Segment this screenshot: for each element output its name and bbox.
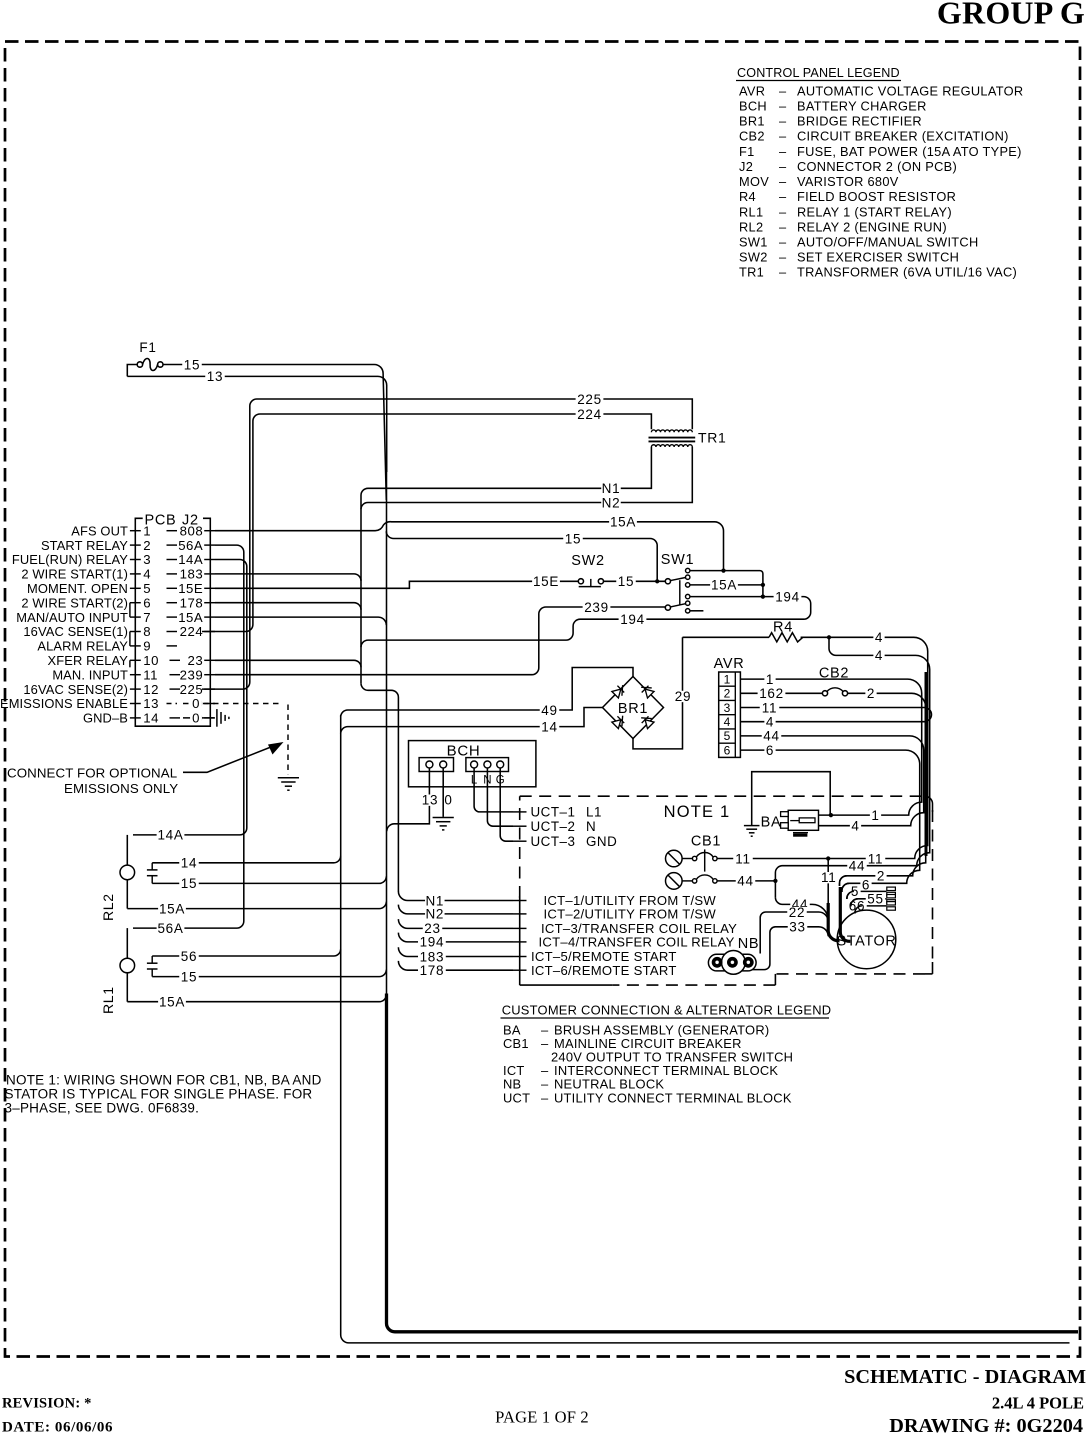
svg-text:15A: 15A: [178, 610, 203, 625]
svg-text:–: –: [779, 250, 787, 265]
svg-text:UCT: UCT: [503, 1090, 530, 1105]
svg-text:15A: 15A: [159, 995, 185, 1010]
svg-text:9: 9: [143, 639, 151, 654]
svg-text:194: 194: [775, 589, 800, 604]
svg-text:14: 14: [541, 719, 557, 734]
wire 15A (RL2 coil to 13/15 vertical): [127, 902, 386, 909]
svg-text:MOMENT. OPEN: MOMENT. OPEN: [27, 581, 128, 596]
svg-text:1: 1: [724, 672, 731, 686]
wire 23 (pin10 to fan bundle): [215, 660, 361, 667]
wire 56A (pin2 to RL1): [133, 545, 244, 928]
svg-text:START RELAY: START RELAY: [41, 538, 128, 553]
svg-text:TRANSFORMER (6VA UTIL/16 VAC): TRANSFORMER (6VA UTIL/16 VAC): [797, 265, 1017, 280]
svg-text:TR1: TR1: [698, 430, 727, 446]
svg-text:UCT–2: UCT–2: [531, 819, 576, 834]
wire 6 (AVR-6 through bundle to stator lead 2): [740, 750, 919, 892]
connector J2 tie bars pins 6-7 and 8-9: [129, 603, 131, 617]
ground GND-B (sideways): [216, 709, 218, 727]
rectifier BR1: [603, 677, 664, 739]
svg-text:UTILITY CONNECT TERMINAL BLOCK: UTILITY CONNECT TERMINAL BLOCK: [554, 1090, 792, 1105]
wire 13 from F1: [127, 376, 386, 472]
transformer TR1: [651, 430, 692, 432]
svg-text:15: 15: [181, 969, 197, 984]
svg-text:29: 29: [675, 689, 691, 704]
wire 4 (R4 out lower, becomes 44 row): [775, 637, 929, 897]
svg-text:UCT–1: UCT–1: [531, 805, 576, 820]
svg-text:ICT–2/UTILITY FROM T/SW: ICT–2/UTILITY FROM T/SW: [544, 907, 717, 922]
ground BA: [744, 825, 760, 827]
spade terminals 5/55/66: [887, 887, 896, 890]
wire 2 and 6 labels: [875, 871, 886, 882]
svg-text:12: 12: [143, 682, 159, 697]
wire 0 (BCH to ground): [442, 768, 444, 817]
svg-text:XFER RELAY: XFER RELAY: [48, 653, 129, 668]
svg-text:CIRCUIT BREAKER (EXCITATION): CIRCUIT BREAKER (EXCITATION): [797, 129, 1009, 144]
svg-text:CB1: CB1: [503, 1036, 529, 1051]
wire 15A (SW1 c3): [690, 584, 763, 586]
wire 1 (AVR-1 through bundle to BA): [740, 679, 921, 815]
svg-text:DATE: 06/06/06: DATE: 06/06/06: [2, 1420, 113, 1436]
svg-text:1: 1: [871, 808, 879, 823]
wire 239 (pin11 to SW1): [215, 607, 665, 675]
wire 66 with terminal: [855, 906, 887, 914]
diode BR1 top-right: [639, 682, 655, 698]
wire F1 left lead to 13: [127, 365, 137, 377]
svg-text:225: 225: [180, 682, 204, 697]
svg-text:44: 44: [763, 729, 779, 744]
svg-text:CB2: CB2: [819, 665, 849, 681]
connector J2 pin rows, numbers and wire numbers: [130, 530, 141, 532]
wire 224 (pin8 to TR1): [202, 414, 651, 632]
svg-text:4: 4: [766, 715, 774, 730]
svg-text:FUEL(RUN) RELAY: FUEL(RUN) RELAY: [12, 552, 128, 567]
svg-text:11: 11: [735, 851, 750, 866]
svg-text:–: –: [779, 189, 787, 204]
svg-text:RL1: RL1: [100, 986, 116, 1014]
ground (emissions option): [278, 777, 299, 779]
svg-text:7: 7: [143, 610, 151, 625]
wire 56 (RL1 contact to left vertical): [152, 949, 341, 956]
svg-text:183: 183: [180, 567, 204, 582]
node junction dot SW1 pole feed: [655, 579, 659, 583]
wire 14 (BR1 left to left vertical): [341, 708, 603, 734]
wire 33 (stator lead to NB): [748, 927, 828, 970]
svg-text:NOTE 1: WIRING SHOWN FOR CB1,: NOTE 1: WIRING SHOWN FOR CB1, NB, BA AND: [6, 1073, 322, 1088]
svg-text:49: 49: [541, 703, 557, 718]
wire 162 / 2 with breaker CB2 (AVR-2): [740, 692, 822, 694]
svg-text:AVR: AVR: [714, 656, 745, 672]
svg-text:EMISSIONS ONLY: EMISSIONS ONLY: [64, 781, 178, 796]
svg-text:1: 1: [143, 523, 151, 538]
svg-text:4: 4: [875, 648, 883, 663]
wire 15E (pin5 to SW2): [215, 581, 578, 588]
UCT terminal rows: [513, 811, 527, 813]
svg-text:6: 6: [862, 878, 870, 893]
wire 808 (pin1, jogs up to 15A row): [215, 522, 724, 571]
svg-text:4: 4: [724, 715, 731, 729]
svg-text:CONTROL PANEL LEGEND: CONTROL PANEL LEGEND: [737, 66, 900, 80]
svg-text:ICT–6/REMOTE START: ICT–6/REMOTE START: [531, 963, 677, 978]
wire 15 (SW2 to SW1 pole): [604, 580, 666, 582]
wire 44 to stator lead 1: [775, 897, 828, 920]
svg-text:5: 5: [724, 729, 731, 743]
svg-text:–: –: [779, 174, 787, 189]
svg-text:–: –: [779, 144, 787, 159]
svg-text:11: 11: [143, 667, 158, 682]
wire 4 (R4 out upper, becomes 11 row at CB1): [717, 637, 927, 858]
relay RL2 contact: [147, 869, 158, 871]
wire 49 (BR1 top to left vertical): [341, 668, 633, 718]
svg-text:AVR: AVR: [739, 83, 765, 98]
svg-text:178: 178: [420, 963, 445, 978]
svg-text:ICT–4/TRANSFER COIL RELAY: ICT–4/TRANSFER COIL RELAY: [539, 935, 735, 950]
svg-text:DRAWING #: 0G2204: DRAWING #: 0G2204: [889, 1415, 1083, 1437]
svg-text:15: 15: [618, 574, 634, 589]
svg-text:4: 4: [851, 819, 859, 834]
wire 194 (SW1 c4 onward): [361, 597, 811, 648]
svg-text:3: 3: [143, 552, 151, 567]
diode BR1 bottom-left: [612, 713, 628, 729]
svg-text:13: 13: [422, 793, 438, 808]
svg-text:RL2: RL2: [739, 219, 763, 234]
svg-text:15: 15: [565, 531, 581, 546]
svg-text:44: 44: [849, 859, 865, 874]
svg-text:NOTE 1: NOTE 1: [664, 803, 731, 821]
wire bundle 13/15 thick lower vertical to bottom rail: [387, 994, 1079, 1332]
node dot BA field loop junction: [829, 813, 833, 817]
relay RL1 coil: [126, 928, 128, 958]
svg-text:11: 11: [868, 851, 883, 866]
svg-text:BCH: BCH: [739, 98, 767, 113]
node dot 15A drop on c1 row: [721, 569, 725, 573]
svg-text:16VAC SENSE(2): 16VAC SENSE(2): [23, 682, 128, 697]
svg-text:MAN/AUTO INPUT: MAN/AUTO INPUT: [16, 610, 128, 625]
svg-text:15: 15: [184, 357, 200, 372]
wire N2 (TR1 to fan bundle): [361, 447, 692, 509]
wire 15A (pin7 joins 13/15 vertical): [215, 617, 386, 625]
wire G to UCT-3: [500, 768, 513, 841]
wire 11 labels on CB1 row: [733, 853, 753, 864]
wire 29 (BR1 bottom to R4): [633, 637, 683, 749]
svg-text:UCT–3: UCT–3: [531, 834, 576, 849]
svg-text:44: 44: [737, 874, 753, 889]
svg-text:3: 3: [724, 701, 731, 715]
svg-text:56A: 56A: [178, 538, 203, 553]
wire right bundle trunk overlay: [925, 672, 928, 856]
svg-text:BA: BA: [761, 815, 782, 831]
svg-text:14A: 14A: [157, 828, 183, 843]
svg-text:239: 239: [584, 600, 609, 615]
svg-text:4: 4: [875, 630, 883, 645]
svg-text:PAGE 1 OF 2: PAGE 1 OF 2: [495, 1408, 589, 1427]
svg-text:MOV: MOV: [739, 174, 769, 189]
svg-text:239: 239: [180, 667, 204, 682]
wire 14A (pin3 to RL2): [133, 560, 247, 835]
svg-text:–: –: [779, 204, 787, 219]
svg-text:R4: R4: [739, 189, 756, 204]
wire 15 (RL2 contact to 13/15 vertical): [152, 876, 386, 883]
svg-text:N: N: [586, 819, 596, 834]
svg-text:EMISSIONS ENABLE: EMISSIONS ENABLE: [0, 696, 128, 711]
svg-text:CUSTOMER CONNECTION & ALTERNAT: CUSTOMER CONNECTION & ALTERNATOR LEGEND: [502, 1003, 832, 1018]
svg-text:4: 4: [143, 567, 151, 582]
wire 14 (RL2 contact): [152, 856, 341, 863]
switch SW1 blades: [670, 578, 685, 581]
svg-text:56: 56: [181, 949, 197, 964]
svg-text:2: 2: [877, 869, 885, 884]
svg-text:56A: 56A: [157, 921, 183, 936]
svg-text:N1: N1: [602, 481, 621, 496]
wire SW1 c6 stub: [690, 610, 703, 612]
svg-text:–: –: [541, 1036, 549, 1051]
wire 11 / 4 (AVR-3 u-turn AVR-4): [740, 708, 931, 722]
node dot R4 output: [827, 635, 831, 639]
BCH dc terminal block: [419, 758, 453, 772]
wire 15 (RL1 contact to 13/15 vertical): [152, 970, 386, 977]
svg-text:0: 0: [192, 711, 200, 726]
svg-text:F1: F1: [739, 144, 755, 159]
battery charger BCH box: [409, 741, 536, 787]
wire N to UCT-2: [487, 768, 513, 826]
svg-text:–: –: [779, 129, 787, 144]
svg-text:2: 2: [724, 687, 731, 701]
wire bundle 13/15 main vertical: [386, 470, 388, 995]
svg-text:15E: 15E: [178, 581, 203, 596]
wire 2 (CB2 through bundle to stator lead 2): [840, 693, 926, 886]
note-1 dashed boundary box: [520, 795, 928, 797]
svg-text:224: 224: [577, 407, 602, 422]
svg-text:1: 1: [766, 672, 774, 687]
wire BA field loop: [752, 772, 831, 826]
svg-text:–: –: [779, 114, 787, 129]
svg-text:RL2: RL2: [100, 893, 116, 921]
svg-text:STATOR IS TYPICAL FOR SINGLE P: STATOR IS TYPICAL FOR SINGLE PHASE. FOR: [5, 1087, 313, 1102]
svg-text:16VAC SENSE(1): 16VAC SENSE(1): [23, 624, 128, 639]
svg-text:–: –: [779, 265, 787, 280]
svg-text:14: 14: [143, 711, 159, 726]
svg-text:BRIDGE RECTIFIER: BRIDGE RECTIFIER: [797, 114, 922, 129]
svg-text:225: 225: [577, 392, 602, 407]
svg-text:–: –: [779, 83, 787, 98]
wire left vertical (49/14 bundle) to bottom rail: [341, 715, 1070, 1343]
svg-text:5: 5: [143, 581, 151, 596]
svg-text:0: 0: [192, 696, 200, 711]
svg-text:FIELD BOOST RESISTOR: FIELD BOOST RESISTOR: [797, 189, 956, 204]
svg-text:178: 178: [180, 595, 204, 610]
svg-text:6: 6: [143, 595, 151, 610]
svg-text:15: 15: [181, 876, 197, 891]
svg-text:23: 23: [188, 653, 204, 668]
svg-text:ALARM RELAY: ALARM RELAY: [37, 639, 128, 654]
svg-text:55: 55: [867, 892, 883, 907]
svg-text:14: 14: [181, 856, 197, 871]
stator: [837, 910, 896, 969]
svg-text:–: –: [541, 1090, 549, 1105]
svg-text:VARISTOR 680V: VARISTOR 680V: [797, 174, 899, 189]
svg-text:GND: GND: [586, 834, 617, 849]
svg-text:CB1: CB1: [691, 834, 721, 850]
svg-text:8: 8: [143, 624, 151, 639]
svg-text:2: 2: [867, 686, 875, 701]
svg-text:3–PHASE, SEE DWG. 0F6839.: 3–PHASE, SEE DWG. 0F6839.: [5, 1101, 200, 1116]
wire 22 (stator lead to NB): [760, 912, 828, 954]
svg-text:0: 0: [444, 793, 452, 808]
svg-text:–: –: [779, 159, 787, 174]
svg-text:AUTOMATIC VOLTAGE REGULATOR: AUTOMATIC VOLTAGE REGULATOR: [797, 83, 1023, 98]
svg-text:GND–B: GND–B: [83, 711, 128, 726]
switch SW1 gang link: [679, 580, 681, 604]
svg-text:F1: F1: [139, 340, 156, 355]
svg-text:SET EXERCISER SWITCH: SET EXERCISER SWITCH: [797, 250, 959, 265]
svg-text:NB: NB: [738, 936, 760, 952]
svg-text:GROUP G: GROUP G: [937, 0, 1085, 31]
svg-text:11: 11: [821, 870, 836, 885]
svg-text:194: 194: [420, 935, 445, 950]
svg-text:808: 808: [180, 523, 204, 538]
svg-text:CB2: CB2: [739, 129, 765, 144]
diode BR1 bottom-right: [639, 713, 655, 729]
wire 178 (pin6 to fan bundle): [215, 603, 361, 610]
svg-text:14A: 14A: [178, 552, 203, 567]
svg-text:STATOR: STATOR: [837, 934, 897, 950]
leader arrow to emissions wire: [183, 745, 276, 772]
svg-text:224: 224: [180, 624, 204, 639]
svg-text:FUSE, BAT POWER (15A ATO TYPE): FUSE, BAT POWER (15A ATO TYPE): [797, 144, 1022, 159]
svg-text:–: –: [779, 219, 787, 234]
wire 0 (pin14 GND-B): [183, 717, 214, 719]
svg-text:15A: 15A: [610, 515, 636, 530]
svg-text:162: 162: [759, 686, 784, 701]
svg-text:–: –: [779, 235, 787, 250]
wire 0 dashed (pin13 emissions): [183, 703, 281, 705]
svg-text:J2: J2: [739, 159, 753, 174]
svg-text:11: 11: [762, 700, 777, 715]
wire L to UCT-1: [474, 768, 513, 812]
wire 5 with terminal: [847, 891, 887, 899]
svg-text:BR1: BR1: [618, 701, 648, 717]
wire 13 (BCH to 13 vertical): [387, 768, 430, 831]
wire 15 from F1: [163, 365, 386, 501]
node: fan bundle jog: [361, 683, 398, 891]
svg-text:CONNECTOR 2 (ON PCB): CONNECTOR 2 (ON PCB): [797, 159, 957, 174]
svg-text:BR1: BR1: [739, 114, 765, 129]
relay RL2 coil: [126, 835, 128, 865]
wire N1 (TR1 to fan bundle): [361, 447, 651, 683]
svg-text:2.4L 4 POLE: 2.4L 4 POLE: [992, 1394, 1084, 1413]
svg-text:TR1: TR1: [739, 265, 764, 280]
svg-text:15A: 15A: [711, 578, 737, 593]
svg-text:6: 6: [766, 743, 774, 758]
svg-text:N2: N2: [602, 495, 621, 510]
svg-text:2: 2: [143, 538, 151, 553]
svg-text:SW2: SW2: [571, 553, 605, 569]
svg-text:6: 6: [724, 743, 731, 757]
svg-text:AUTO/OFF/MANUAL SWITCH: AUTO/OFF/MANUAL SWITCH: [797, 235, 979, 250]
ground BCH: [433, 817, 454, 819]
svg-text:22: 22: [789, 905, 805, 920]
svg-text:N2: N2: [425, 907, 444, 922]
svg-text:SW1: SW1: [661, 552, 695, 568]
BCH ac terminal block: [466, 758, 509, 772]
wire 183 (pin4 to fan bundle): [215, 574, 361, 581]
svg-text:SW1: SW1: [739, 235, 768, 250]
wire 44 (AVR-5 through bundle to BA lower): [740, 736, 923, 826]
diode BR1 top-left: [612, 683, 628, 699]
svg-text:RL1: RL1: [739, 204, 763, 219]
wires N1,N2,23,194,183,178 fan to ICT rows: [398, 891, 417, 900]
svg-text:2 WIRE START(2): 2 WIRE START(2): [21, 595, 128, 610]
svg-text:RELAY 1 (START RELAY): RELAY 1 (START RELAY): [797, 204, 952, 219]
svg-text:AFS OUT: AFS OUT: [71, 523, 128, 538]
svg-text:CONNECT FOR OPTIONAL: CONNECT FOR OPTIONAL: [7, 766, 177, 781]
svg-text:REVISION: *: REVISION: *: [2, 1396, 92, 1412]
svg-text:15E: 15E: [533, 574, 559, 589]
svg-text:L1: L1: [586, 805, 602, 820]
svg-text:13: 13: [207, 369, 223, 384]
svg-text:33: 33: [789, 920, 805, 935]
svg-text:10: 10: [143, 653, 159, 668]
svg-text:SW2: SW2: [739, 250, 768, 265]
svg-text:15A: 15A: [159, 901, 185, 916]
stator area arcs redrawn over labels: [840, 876, 847, 886]
wire 15A (RL1 coil to 13/15 vertical): [127, 995, 386, 1002]
wire SW1 c1 to junction: [690, 571, 763, 597]
svg-text:SCHEMATIC - DIAGRAM: SCHEMATIC - DIAGRAM: [844, 1366, 1086, 1388]
svg-text:–: –: [779, 98, 787, 113]
svg-text:13: 13: [143, 696, 159, 711]
stator lead 1 (11/44/22/33): [827, 859, 829, 905]
svg-text:MAN. INPUT: MAN. INPUT: [52, 667, 128, 682]
relay RL1 contact: [147, 962, 158, 964]
wire 15 from 13/15 vertical to SW1 pole: [386, 531, 657, 581]
wire 55 with terminal: [851, 899, 887, 907]
svg-text:RELAY 2 (ENGINE RUN): RELAY 2 (ENGINE RUN): [797, 219, 947, 234]
svg-text:2 WIRE START(1): 2 WIRE START(1): [21, 567, 128, 582]
svg-text:194: 194: [620, 612, 645, 627]
wire 225 (pin12 to TR1): [202, 399, 692, 689]
svg-text:BATTERY CHARGER: BATTERY CHARGER: [797, 98, 927, 113]
